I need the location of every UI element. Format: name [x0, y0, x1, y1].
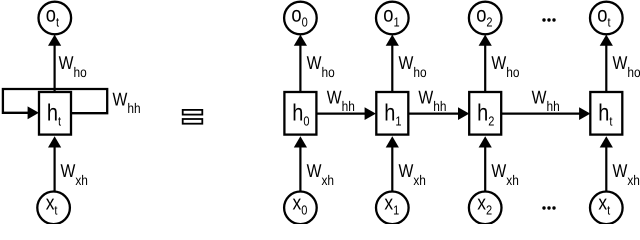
wire x_t to h_t (left): [48, 136, 61, 192]
equivalence sign top bar: [183, 110, 203, 115]
node x_2 (unrolled input): [469, 192, 502, 225]
wire h_1 to o_1: [386, 35, 399, 92]
wire x_t to h_t: [600, 136, 613, 191]
self-loop wire (recurrent connection, left): [3, 89, 107, 119]
wire h_0 to h_1 (recurrent): [317, 107, 376, 120]
svg-text:h0: h0: [292, 100, 309, 129]
wire x_0 to h_0: [294, 136, 307, 191]
wire h_0 to o_0: [294, 35, 307, 92]
svg-text:o1: o1: [383, 3, 399, 30]
svg-text:Wxh: Wxh: [613, 160, 640, 188]
node x_1 (unrolled input): [376, 192, 409, 225]
svg-text:Wxh: Wxh: [399, 160, 426, 188]
wire h_t to o_t (left): [48, 35, 61, 92]
wire h_2 to h_t (recurrent): [501, 107, 590, 120]
node o_2 (unrolled output): [469, 2, 502, 35]
svg-text:Wxh: Wxh: [61, 160, 88, 188]
ellipsis between o_2 and o_t: [542, 18, 555, 21]
svg-text:x2: x2: [477, 192, 492, 218]
svg-text:o0: o0: [291, 3, 307, 30]
node o_t (unrolled output): [590, 2, 623, 35]
svg-text:x0: x0: [293, 192, 308, 218]
hidden-state box h_t: [590, 92, 622, 135]
hidden-state box h_0: [284, 92, 316, 135]
wire x_1 to h_1: [386, 136, 399, 191]
svg-text:ht: ht: [47, 100, 62, 129]
equivalence sign bottom bar: [183, 119, 203, 124]
svg-text:Wxh: Wxh: [491, 160, 518, 188]
wire h_2 to o_2: [479, 35, 492, 92]
node x_t (unrolled input): [590, 192, 623, 225]
svg-text:ht: ht: [598, 100, 613, 129]
wire x_2 to h_2: [479, 136, 492, 191]
svg-text:Who: Who: [491, 52, 519, 80]
svg-text:Whh: Whh: [418, 87, 446, 115]
svg-text:Wxh: Wxh: [307, 160, 334, 188]
svg-text:h1: h1: [384, 100, 401, 129]
node o_0 (unrolled output): [284, 2, 317, 35]
svg-text:xt: xt: [598, 192, 610, 218]
node o_1 (unrolled output): [376, 2, 409, 35]
hidden-state box h_t (left): [39, 92, 71, 135]
svg-text:ot: ot: [46, 3, 60, 30]
svg-text:Whh: Whh: [327, 87, 355, 115]
svg-text:h2: h2: [477, 100, 494, 129]
svg-text:Who: Who: [613, 52, 640, 80]
hidden-state box h_1: [376, 92, 408, 135]
node o_t (left rolled RNN output): [39, 2, 72, 35]
ellipsis between x_2 and x_t: [542, 206, 555, 209]
svg-text:ot: ot: [597, 3, 611, 30]
wire h_t to o_t: [600, 35, 613, 92]
svg-text:Whh: Whh: [532, 87, 560, 115]
svg-text:Who: Who: [399, 52, 427, 80]
node x_t (left rolled RNN input): [37, 192, 70, 225]
svg-text:Who: Who: [59, 52, 87, 80]
hidden-state box h_2: [469, 92, 501, 135]
svg-text:xt: xt: [46, 192, 58, 218]
svg-text:Whh: Whh: [113, 89, 141, 117]
svg-text:Who: Who: [307, 52, 335, 80]
node x_0 (unrolled input): [284, 192, 317, 225]
svg-text:o2: o2: [476, 3, 492, 30]
svg-text:x1: x1: [384, 192, 399, 218]
wire h_1 to h_2 (recurrent): [408, 107, 469, 120]
